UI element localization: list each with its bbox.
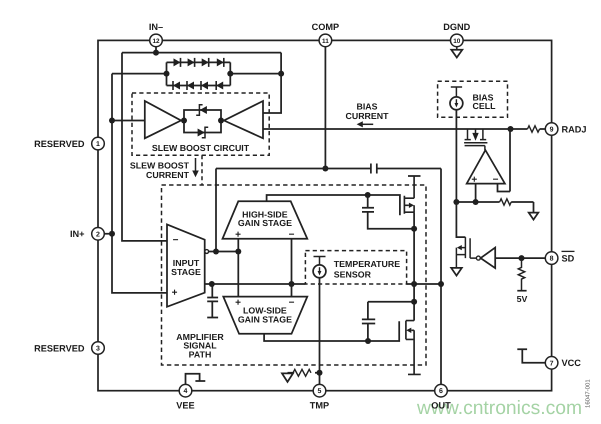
svg-text:GAIN STAGE: GAIN STAGE [238, 315, 292, 325]
svg-text:BIAS: BIAS [356, 102, 377, 112]
pin 4 VEE [176, 384, 194, 410]
node bias y202 junctions [453, 199, 478, 205]
pin 6 OUT [431, 384, 451, 410]
rail hook VCC [517, 349, 545, 363]
svg-text:16047-001: 16047-001 [585, 379, 592, 408]
svg-text:+: + [471, 174, 477, 185]
svg-text:+: + [172, 287, 178, 298]
diode D4 [217, 58, 224, 67]
wire riser V+ [237, 239, 239, 297]
ground U1 resistor [529, 213, 539, 220]
pin 12 IN- [149, 22, 163, 47]
svg-text:VEE: VEE [176, 401, 194, 411]
schottky pair box [184, 110, 221, 133]
node schottky box ends [181, 118, 224, 124]
svg-text:RADJ: RADJ [562, 124, 587, 134]
svg-text:IN–: IN– [149, 22, 163, 32]
svg-text:TMP: TMP [310, 401, 329, 411]
node M2 gate cap junction [365, 338, 371, 344]
svg-text:RESERVED: RESERVED [34, 343, 85, 353]
diode D8 [216, 81, 223, 90]
svg-text:7: 7 [550, 360, 554, 367]
label high-side gain stage [238, 209, 292, 228]
bias cell dashed box [438, 81, 508, 117]
dashed link slew box to signal path [201, 155, 203, 185]
node TMP junction [317, 370, 323, 376]
current source bias cell [450, 87, 463, 110]
diode D3 [202, 58, 209, 67]
svg-text:1: 1 [96, 141, 100, 148]
transistor Q1 bias mirror [464, 129, 487, 150]
node M1 gate cap junction [365, 192, 371, 198]
wire output node W2 [205, 283, 441, 285]
ground R-TMP [282, 373, 293, 382]
svg-text:+: + [235, 297, 241, 308]
svg-text:SLEW BOOST CIRCUIT: SLEW BOOST CIRCUIT [152, 143, 250, 153]
svg-text:PATH: PATH [189, 349, 212, 359]
svg-text:VCC: VCC [562, 358, 582, 368]
ground DGND [451, 47, 462, 58]
wire bias cell to SD mosfet drain [456, 110, 465, 237]
capacitor C1 M1 gate-source [362, 195, 414, 229]
pin 10 DGND [443, 22, 470, 47]
svg-text:2: 2 [96, 231, 100, 238]
rail 5V [517, 290, 526, 292]
pin 8 SD [545, 251, 574, 264]
diode D2 [188, 58, 195, 67]
resistor R-RADJ [528, 126, 540, 132]
pin 1 RESERVED [34, 137, 104, 150]
buffer amp A2 [221, 101, 263, 138]
svg-text:GAIN STAGE: GAIN STAGE [238, 218, 292, 228]
label bias current [345, 102, 389, 122]
label slew boost current [130, 161, 190, 181]
node diode loop ends [164, 71, 234, 77]
pin 11 COMP [312, 22, 340, 47]
wire IN+ net: pin2 stub, vertical x112, branch to diode loop, slew input, non-inverting input [104, 74, 167, 293]
node IN- junctions [153, 50, 284, 77]
svg-text:3: 3 [96, 346, 100, 353]
pin 3 RESERVED [34, 342, 104, 355]
wire input stage top output [209, 251, 239, 253]
transistor Q2 shutdown switch [456, 237, 476, 268]
input stage trapezoid [167, 224, 205, 306]
svg-text:6: 6 [439, 388, 443, 395]
wire TMP net [288, 278, 320, 385]
wire bias current net y129 [263, 128, 545, 130]
transistor M1 high-side output fet [404, 176, 420, 214]
diode D6 [187, 81, 194, 90]
wire SD net [495, 257, 545, 259]
node input stage output bubble [205, 250, 209, 254]
wire U1 inputs and feedback [476, 129, 510, 202]
resistor R-U1 [500, 199, 512, 205]
buffer amp A1 [145, 101, 184, 138]
svg-text:IN+: IN+ [70, 229, 85, 239]
node COMP junction [322, 166, 328, 172]
node IN+ junctions [109, 118, 115, 237]
svg-text:SLEW BOOST: SLEW BOOST [130, 161, 190, 171]
pin 7 VCC [545, 357, 581, 370]
wire riser V- [291, 239, 293, 297]
svg-text:SD: SD [562, 253, 575, 263]
node W2 junctions [209, 281, 444, 287]
IC boundary [98, 40, 552, 390]
current source temperature sensor [313, 257, 326, 278]
svg-text:11: 11 [322, 38, 329, 45]
rail hook VEE [186, 374, 206, 385]
label input stage [171, 258, 201, 277]
node top output junctions [213, 249, 241, 255]
op-amp U1 [467, 150, 505, 184]
svg-text:5V: 5V [517, 294, 528, 304]
capacitor input stage to rail [207, 284, 218, 318]
temperature sensor dashed box [305, 251, 406, 284]
wire IN- net: pin12 stub, top rail y52.6, left drop x122 to inverting input, right drop x281 to slew amp A2 input [122, 47, 281, 241]
svg-text:9: 9 [550, 127, 554, 134]
amplifier signal path dashed box [162, 185, 427, 365]
wire high-side output to M1 gate [267, 195, 400, 215]
svg-text:SENSOR: SENSOR [334, 269, 372, 279]
resistor R-TMP [293, 369, 311, 376]
svg-text:CURRENT: CURRENT [345, 111, 389, 121]
svg-text:RESERVED: RESERVED [34, 139, 85, 149]
wire output chain x414 [413, 212, 415, 320]
ground Q2 source [451, 268, 462, 276]
svg-text:CURRENT: CURRENT [146, 170, 190, 180]
svg-text:8: 8 [550, 256, 554, 263]
high-side gain stage trapezoid [223, 201, 308, 239]
wire low-side output to M2 gate [264, 321, 399, 341]
schottky diode DS2 [198, 127, 209, 138]
capacitor comp [371, 164, 377, 174]
svg-text:DGND: DGND [443, 22, 470, 32]
diode D7 [201, 81, 208, 90]
svg-text:4: 4 [184, 388, 188, 395]
pin 9 RADJ [545, 123, 586, 136]
node RADJ junction [508, 126, 514, 132]
slew boost circuit dashed box [132, 93, 269, 155]
wire bias node y202 [456, 202, 533, 212]
pin 5 TMP [310, 384, 329, 410]
arrow slew boost current [192, 158, 199, 177]
low-side gain stage trapezoid [223, 297, 307, 334]
svg-text:12: 12 [152, 38, 160, 45]
wire diode-loop frame and link to x281 [167, 62, 282, 85]
svg-text:10: 10 [453, 38, 461, 45]
label low-side gain stage [238, 306, 292, 325]
svg-text:5: 5 [318, 388, 322, 395]
diode D1 [174, 58, 181, 67]
svg-text:COMP: COMP [312, 22, 340, 32]
svg-text:STAGE: STAGE [171, 267, 201, 277]
wire COMP net [324, 47, 326, 169]
label bias cell [473, 93, 497, 112]
label temperature sensor [334, 259, 400, 279]
svg-text:OUT: OUT [431, 401, 451, 411]
svg-text:−: − [173, 235, 179, 246]
diode D5 [173, 81, 180, 90]
transistor M2 low-side output fet [406, 321, 421, 375]
node chain junctions [411, 226, 417, 305]
wire compensation node W1 [216, 169, 441, 385]
pin 2 IN+ [70, 228, 104, 241]
schottky diode DS1 [196, 105, 207, 116]
svg-text:−: − [289, 297, 295, 308]
resistor R-SD pullup [518, 258, 524, 291]
label amplifier signal path [176, 332, 224, 359]
arrow bias current [357, 121, 374, 127]
node SD junction [519, 255, 525, 261]
svg-text:TEMPERATURE: TEMPERATURE [334, 259, 400, 269]
svg-text:CELL: CELL [473, 101, 497, 111]
inverter U2 [476, 248, 495, 269]
capacitor C2 M2 gate-source [362, 302, 414, 341]
